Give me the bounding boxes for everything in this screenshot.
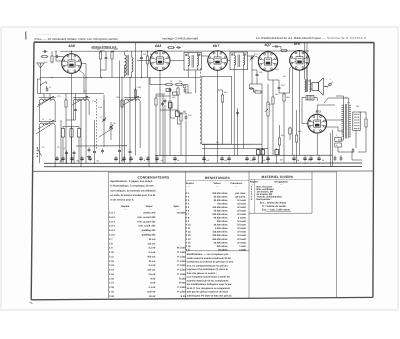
resistor R10 xyxy=(169,100,171,110)
resistor R7 xyxy=(165,83,174,85)
speaker HP xyxy=(312,78,328,95)
wire B-minus bus xyxy=(44,162,362,164)
svg-text:R16: R16 xyxy=(286,96,289,99)
capacitor C26 xyxy=(129,149,132,154)
coil L5b secondary xyxy=(132,57,134,72)
wire detector line xyxy=(250,83,262,85)
svg-text:conformes au schéma de princip: conformes au schéma de principe ci-des- xyxy=(187,261,234,264)
svg-text:C.A 2: C.A 2 xyxy=(109,216,116,219)
svg-text:c16: c16 xyxy=(262,159,265,162)
svg-text:R13: R13 xyxy=(253,89,256,92)
svg-text:pot. inter.: pot. inter. xyxy=(235,192,246,195)
wire det xyxy=(249,84,251,89)
svg-text:trim. accord 450: trim. accord 450 xyxy=(137,216,156,219)
svg-text:C 10: C 10 xyxy=(109,251,115,254)
svg-text:Exc — bob. 1.800 ohms: Exc — bob. 1.800 ohms xyxy=(262,209,291,212)
resistor R6 below V2 xyxy=(155,97,157,107)
arrow L3L4 variable xyxy=(36,125,50,134)
wire C19 R17 xyxy=(272,46,274,48)
svg-text:T1: T1 xyxy=(345,96,347,99)
electrolytic CE2 xyxy=(261,148,264,163)
resistor R21 top left xyxy=(41,56,49,58)
svg-text:50 cm: 50 cm xyxy=(149,260,156,263)
faint microtext line xyxy=(36,32,295,36)
svg-text:C 12: C 12 xyxy=(109,260,115,263)
svg-text:R 13: R 13 xyxy=(186,234,192,237)
svg-text:C.A 3: C.A 3 xyxy=(109,220,116,223)
wire v81 xyxy=(80,100,82,167)
corner tick mark xyxy=(30,302,33,303)
svg-text:C.A 6: C.A 6 xyxy=(109,234,116,237)
wire rectifier plates xyxy=(326,119,343,121)
svg-text:R20: R20 xyxy=(138,86,141,89)
capacitor C17 det xyxy=(249,87,254,90)
svg-text:R8: R8 xyxy=(179,80,181,83)
wire cathode network xyxy=(65,94,67,101)
capacitor C22 xyxy=(65,150,68,155)
capacitor Cb2 bypass xyxy=(61,156,64,161)
svg-text:1/4 watt: 1/4 watt xyxy=(237,199,246,202)
capacitor C6 osc xyxy=(105,55,108,60)
capacitor C29 xyxy=(176,46,181,48)
svg-text:1/4 watt: 1/4 watt xyxy=(237,238,246,241)
wire chassis bus xyxy=(44,166,362,168)
wire MF2 leads xyxy=(233,70,235,156)
svg-text:C.A5: C.A5 xyxy=(92,100,96,103)
svg-text:8: 8 xyxy=(144,159,145,162)
wire C11 R5 xyxy=(141,51,143,56)
jack J1 xyxy=(327,82,333,88)
capacitor C9 tracking xyxy=(88,147,91,152)
svg-text:P 1.500: P 1.500 xyxy=(177,264,186,267)
table condensateurs box xyxy=(109,172,186,299)
wire V1 cathode down xyxy=(71,73,73,163)
svg-text:425 ohms: 425 ohms xyxy=(217,245,228,248)
electrolytic CE1 xyxy=(257,148,260,163)
svg-text:trim. oscill. 450: trim. oscill. 450 xyxy=(138,225,156,228)
wire rail AJ xyxy=(202,147,268,149)
resistor R15 V4 plate load xyxy=(272,96,274,106)
svg-text:CONDENSATEURS: CONDENSATEURS xyxy=(138,175,170,179)
svg-text:250.000 ohms: 250.000 ohms xyxy=(212,192,228,195)
svg-text:montage CH4956 alternatif: montage CH4956 alternatif xyxy=(162,37,198,41)
wire rectifier output xyxy=(316,133,318,155)
component value labels xyxy=(42,48,360,163)
svg-text:500.000 ohms: 500.000 ohms xyxy=(212,238,228,241)
svg-text:c6: c6 xyxy=(161,159,163,162)
resistor R24 xyxy=(289,127,291,141)
wire CT down xyxy=(330,133,332,167)
switch S2 secteur xyxy=(335,143,342,147)
svg-text:Valeur: Valeur xyxy=(146,205,153,208)
tube V4 6Q7 detector xyxy=(258,52,277,71)
svg-text:c9: c9 xyxy=(177,159,179,162)
svg-text:C11: C11 xyxy=(143,53,146,56)
capacitor C21 filter xyxy=(340,156,343,161)
svg-text:20 mf: 20 mf xyxy=(149,295,155,298)
svg-text:8 mf: 8 mf xyxy=(151,277,156,280)
svg-text:c25: c25 xyxy=(121,159,124,162)
wire HT rail xyxy=(155,154,332,156)
capacitor C24 xyxy=(93,149,96,154)
resistor R8 xyxy=(175,83,184,85)
svg-text:C 14: C 14 xyxy=(109,269,115,272)
resistor R13 det load xyxy=(254,91,263,93)
svg-text:c23: c23 xyxy=(76,160,79,163)
junction dots heater xyxy=(71,50,300,51)
capacitor C19 xyxy=(274,45,279,48)
svg-text:40 ohms: 40 ohms xyxy=(218,248,228,251)
capacitor C31 xyxy=(161,102,164,106)
transformer MF2 xyxy=(230,52,248,70)
potentiometer R14 volume xyxy=(265,101,270,118)
svg-text:C.A 4: C.A 4 xyxy=(109,225,116,228)
svg-text:R11: R11 xyxy=(183,110,186,113)
resistor R18 cathode V5 xyxy=(295,134,297,144)
wire V1 right pins xyxy=(81,64,86,78)
wire L6 drops xyxy=(124,101,126,163)
capacitor Cb15 bypass xyxy=(227,156,230,161)
svg-text:R18: R18 xyxy=(298,130,301,133)
svg-text:1/2 watt: 1/2 watt xyxy=(237,203,246,206)
separator line schematic/tables xyxy=(33,170,374,172)
wire to border top xyxy=(135,43,137,61)
wire transformer to speaker xyxy=(310,83,313,85)
svg-text:C 15: C 15 xyxy=(109,273,115,276)
capacitor Cb21 bypass xyxy=(309,156,312,161)
capacitor Cb18 bypass xyxy=(266,156,269,161)
svg-text:2 watts: 2 watts xyxy=(238,217,247,220)
pen mark top left xyxy=(25,32,27,40)
svg-text:1/4 watt: 1/4 watt xyxy=(237,213,246,216)
wire heater supply line xyxy=(60,50,309,52)
wire osc drops xyxy=(100,61,102,78)
wire bottom stubs xyxy=(156,154,158,157)
coil L3 oscillator xyxy=(39,122,56,125)
svg-text:P 1.500: P 1.500 xyxy=(177,251,186,254)
svg-text:trim. accord 450: trim. accord 450 xyxy=(137,220,156,223)
tube V6 5Y3 rectifier xyxy=(308,114,327,133)
svg-text:Les récepteurs postérieurs à p: Les récepteurs postérieurs à partir du xyxy=(187,276,231,279)
svg-text:C7: C7 xyxy=(100,116,102,119)
svg-text:R19: R19 xyxy=(116,96,119,99)
svg-text:R17: R17 xyxy=(283,75,286,78)
resistor R19 xyxy=(121,99,123,109)
capacitor C5 cathode V1 xyxy=(74,107,77,112)
wire V1 grid top xyxy=(51,51,53,54)
wire osc top connections xyxy=(100,50,102,53)
svg-text:sus, ne comprennent pas le: sus, ne comprennent pas les pièces xyxy=(187,264,229,267)
svg-text:gd variat.: gd variat. xyxy=(235,196,246,199)
svg-text:Exc. : bobine de champ: Exc. : bobine de champ xyxy=(260,201,287,204)
svg-text:2x450 cmd: 2x450 cmd xyxy=(143,212,155,215)
coil L1 antenna primary xyxy=(39,98,56,101)
svg-text:R15: R15 xyxy=(275,93,278,96)
svg-text:8mf: 8mf xyxy=(308,159,312,162)
svg-text:250 ohms: 250 ohms xyxy=(217,220,228,223)
wire screen rail xyxy=(202,143,262,145)
capacitor C25 xyxy=(118,148,121,153)
arrow L6L7 variable xyxy=(99,128,113,137)
wire v122 xyxy=(121,78,123,164)
svg-text:90.000 ohms: 90.000 ohms xyxy=(214,217,229,220)
capacitor C3 padding xyxy=(70,127,73,164)
svg-text:8 mf: 8 mf xyxy=(151,282,156,285)
svg-text:c24: c24 xyxy=(96,159,99,162)
svg-text:. .... . ... ,...... .. .: . .... . ... ,...... .. . ., ... . xyxy=(36,33,59,36)
schematic frame border xyxy=(31,42,374,300)
capacitor Cb16 bypass xyxy=(245,156,248,161)
resistor R16 grid V5 xyxy=(283,93,285,103)
table materiel divers box xyxy=(249,172,312,214)
capacitor Cb8 bypass xyxy=(129,156,132,161)
capacitor Cb19 bypass xyxy=(292,156,295,161)
svg-text:700 ohms: 700 ohms xyxy=(217,203,228,206)
svg-text:C.A6: C.A6 xyxy=(98,106,102,109)
svg-text:R5: R5 xyxy=(150,53,152,56)
wire v130 xyxy=(129,78,131,151)
switch S1 contacts column xyxy=(37,147,42,157)
svg-text:C19: C19 xyxy=(275,68,278,71)
resistor R9 xyxy=(177,87,179,97)
wire heater stubs xyxy=(72,51,300,54)
coil L6 oscillator gang xyxy=(124,98,141,101)
gang dash line xyxy=(199,68,201,145)
header line text xyxy=(35,36,367,41)
wire T2 plate to MF1 xyxy=(170,60,184,62)
voltage selector panel xyxy=(353,112,360,131)
svg-text:1 watt: 1 watt xyxy=(239,248,246,251)
wire CV to bus xyxy=(204,144,206,163)
svg-text:C3: C3 xyxy=(57,146,59,149)
svg-text:tant par les pièces repéré: tant par les pièces repérées de deux xyxy=(187,291,229,294)
coil L5 oscillator anode xyxy=(125,55,129,75)
arrow L1 xyxy=(38,96,54,105)
svg-text:25.000 ohms: 25.000 ohms xyxy=(214,199,229,202)
wire v149 xyxy=(148,78,150,167)
capacitor Cb9 bypass xyxy=(139,156,142,161)
svg-text:. ..--.: . ..--. xyxy=(290,32,295,35)
capacitor C3b padding xyxy=(77,127,80,164)
wire speaker leads up xyxy=(304,43,306,79)
svg-text:250.000 ohms: 250.000 ohms xyxy=(212,234,228,237)
wire cluster xyxy=(150,78,165,85)
resistor R4 screen xyxy=(111,51,113,61)
wire V5 plate to output transformer xyxy=(306,66,308,79)
svg-text:6Q7: 6Q7 xyxy=(265,43,273,47)
svg-text:J: J xyxy=(330,78,331,81)
cond header xyxy=(121,205,180,211)
svg-text:500.000 ohms: 500.000 ohms xyxy=(212,213,228,216)
svg-text:1/4 watt: 1/4 watt xyxy=(237,220,246,223)
wire v104 xyxy=(103,95,105,120)
svg-text:Haut-parleur :: Haut-parleur : xyxy=(257,198,272,201)
coil L2 RF secondary xyxy=(73,98,90,101)
svg-text:padding 450: padding 450 xyxy=(142,229,156,232)
svg-text:1 watt: 1 watt xyxy=(239,245,246,248)
svg-text:110 cm: 110 cm xyxy=(148,242,156,245)
label function modulatrice xyxy=(92,46,119,52)
svg-text:6F6: 6F6 xyxy=(294,42,300,46)
svg-text:0,1 mf: 0,1 mf xyxy=(149,251,156,254)
arrow L3 xyxy=(38,120,54,129)
wire v61 xyxy=(60,120,62,163)
svg-text:C.A 5: C.A 5 xyxy=(109,229,116,232)
svg-text:P 1.500: P 1.500 xyxy=(177,269,186,272)
svg-text:C8: C8 xyxy=(113,122,115,125)
svg-text:c15: c15 xyxy=(250,159,253,162)
svg-text:en volts, la tension d'essai p: en volts, la tension d'essai pour P et M xyxy=(110,194,155,197)
wire v292 xyxy=(292,67,294,155)
svg-text:C 19: C 19 xyxy=(109,290,115,293)
svg-text:100 cm: 100 cm xyxy=(147,269,155,272)
wire V2 cathode xyxy=(159,71,161,156)
capacitor C20 filter xyxy=(334,156,337,161)
svg-text:1.000 ohms: 1.000 ohms xyxy=(215,227,228,230)
svg-text:C2: C2 xyxy=(42,146,44,149)
svg-text:R 12: R 12 xyxy=(186,231,192,234)
wire transformer top to rectifier xyxy=(324,98,349,105)
wire v133 xyxy=(135,61,137,156)
svg-text:6A8: 6A8 xyxy=(155,44,161,48)
wire coil drops xyxy=(39,101,41,122)
svg-text:20.000 ohms: 20.000 ohms xyxy=(214,224,229,227)
svg-text:tie B. P. Ces récepteurs: tie B. P. Ces récepteurs se composent xyxy=(187,287,230,290)
wire v237 xyxy=(237,108,239,155)
svg-text:numéro matricule 51-42, com: numéro matricule 51-42, comportent xyxy=(187,279,229,282)
resistor R25 xyxy=(166,89,171,92)
capacitor Cb3 bypass xyxy=(70,156,73,161)
wire MF2 to V4 xyxy=(248,56,259,58)
svg-text:astérisques (**) dans la li: astérisques (**) dans la liste des pièce… xyxy=(187,294,233,297)
capacitor Cb7 bypass xyxy=(122,156,125,161)
tube V1 6A8 converter xyxy=(62,54,82,74)
svg-text:L4: L4 xyxy=(49,118,51,121)
capacitor C11 coupling to V2 xyxy=(140,55,143,60)
wire antenna lead xyxy=(40,76,42,94)
svg-text:SEL: SEL xyxy=(356,105,360,108)
svg-text:20: 20 xyxy=(322,159,324,162)
svg-text:Modifications. — Les récepteur: Modifications. — Les récepteurs pré- xyxy=(187,253,229,256)
wire grid link xyxy=(38,93,105,95)
wire v86 xyxy=(85,78,87,164)
svg-text:50 cm: 50 cm xyxy=(149,238,156,241)
svg-text:R4: R4 xyxy=(115,48,117,51)
resistor R2 cathode V1 xyxy=(65,99,67,109)
arrow L2 xyxy=(72,96,88,105)
capacitor C28 xyxy=(236,110,239,115)
resistor R12 cathode V3 xyxy=(221,94,223,104)
svg-text:Repère: Repère xyxy=(121,205,130,208)
svg-text:RESISTANCES: RESISTANCES xyxy=(205,176,231,180)
svg-text:1/4 watt: 1/4 watt xyxy=(237,231,246,234)
trimmer C7 padding xyxy=(102,117,106,122)
capacitor Cb14 bypass xyxy=(220,156,223,161)
svg-text:Le Radiomémento de Radiotechni: Le Radiomémento de Radiotechnique — Sché… xyxy=(256,36,366,40)
svg-text:liste des pièces ci-contre: liste des pièces ci-contre ; xyxy=(187,272,217,275)
svg-text:les modifications indiquées so: les modifications indiquées sous la par- xyxy=(187,283,233,286)
svg-text:8mf: 8mf xyxy=(280,159,284,162)
svg-text:150.000 ohms: 150.000 ohms xyxy=(212,231,228,234)
wire V3 pins xyxy=(217,70,219,163)
svg-text:c13: c13 xyxy=(224,159,227,162)
svg-text:E 25: E 25 xyxy=(181,295,186,298)
svg-text:E 500: E 500 xyxy=(179,282,186,285)
capacitor C16 xyxy=(256,72,259,77)
svg-text:6K7: 6K7 xyxy=(213,44,220,48)
junction dots xyxy=(51,50,148,78)
svg-text:P 1.500: P 1.500 xyxy=(177,286,186,289)
svg-text:C 18: C 18 xyxy=(109,286,115,289)
svg-text:0,1 mf: 0,1 mf xyxy=(149,286,156,289)
capacitor Cb22 bypass xyxy=(317,156,320,161)
wire mains xyxy=(338,147,362,160)
wire V1 left pin to heater xyxy=(56,51,62,61)
trimmer C8 padding xyxy=(109,124,113,129)
svg-text:50.000 ohms: 50.000 ohms xyxy=(214,210,229,213)
svg-text:P 1.500: P 1.500 xyxy=(177,273,186,276)
resistor R23 bleeder xyxy=(365,118,367,129)
capacitor Cb13 bypass xyxy=(202,156,205,161)
svg-text:R14: R14 xyxy=(268,103,271,106)
capacitor Cb4 bypass xyxy=(80,156,83,161)
svg-text:c12: c12 xyxy=(206,159,209,162)
svg-text:R7: R7 xyxy=(170,80,172,83)
svg-text:C.A 1: C.A 1 xyxy=(109,212,116,215)
svg-text:R12: R12 xyxy=(224,91,227,94)
transformer T1 secondaries xyxy=(349,105,351,139)
junction dots bus xyxy=(66,163,320,164)
resistor R27 xyxy=(169,103,173,109)
svg-text:CT4: CT4 xyxy=(254,53,258,56)
svg-text:0,1 mf: 0,1 mf xyxy=(149,264,156,267)
svg-text:R.B.L. — 10, Boulevard Volta: R.B.L. — 10, Boulevard Voltaire, Paris, … xyxy=(35,37,119,41)
vertical rule right xyxy=(335,171,337,298)
transformer MF1 xyxy=(184,53,202,71)
wire v119 xyxy=(119,61,121,149)
svg-text:C1: C1 xyxy=(49,86,51,89)
capacitor C27 top left xyxy=(42,50,47,53)
electrolytic CE3 xyxy=(275,148,278,163)
svg-text:Spéc.: Spéc. xyxy=(174,205,181,208)
svg-text:C 11: C 11 xyxy=(109,255,114,258)
svg-text:50.000 ohms: 50.000 ohms xyxy=(214,196,229,199)
wire padding xyxy=(103,100,105,118)
resistor R28 xyxy=(176,111,180,117)
resistor R11 xyxy=(180,113,182,123)
transformer T1 power: primary xyxy=(341,105,343,139)
capacitor C30 xyxy=(352,148,355,153)
svg-text:1/4 watt: 1/4 watt xyxy=(237,206,246,209)
capacitor Cb5 bypass xyxy=(88,156,91,161)
svg-text:C5: C5 xyxy=(84,90,86,93)
wire plate2 xyxy=(326,127,343,131)
wire screen rail left xyxy=(76,145,127,147)
tube V5 6F6 output xyxy=(290,51,310,71)
ground osc xyxy=(87,155,91,158)
svg-text:5Y3: 5Y3 xyxy=(316,110,322,114)
svg-text:c18: c18 xyxy=(296,159,299,162)
capacitor C14 xyxy=(184,88,187,93)
pot wiper dot xyxy=(183,85,186,88)
svg-text:R 11: R 11 xyxy=(186,227,191,230)
svg-text:R 16: R 16 xyxy=(186,245,192,248)
capacitor Cb17 bypass xyxy=(252,156,255,161)
resistor R26 xyxy=(173,92,178,95)
switch S1 band xyxy=(40,82,47,88)
condensateur variable CV frame xyxy=(202,76,232,144)
capacitor Cb12 bypass xyxy=(173,156,176,161)
